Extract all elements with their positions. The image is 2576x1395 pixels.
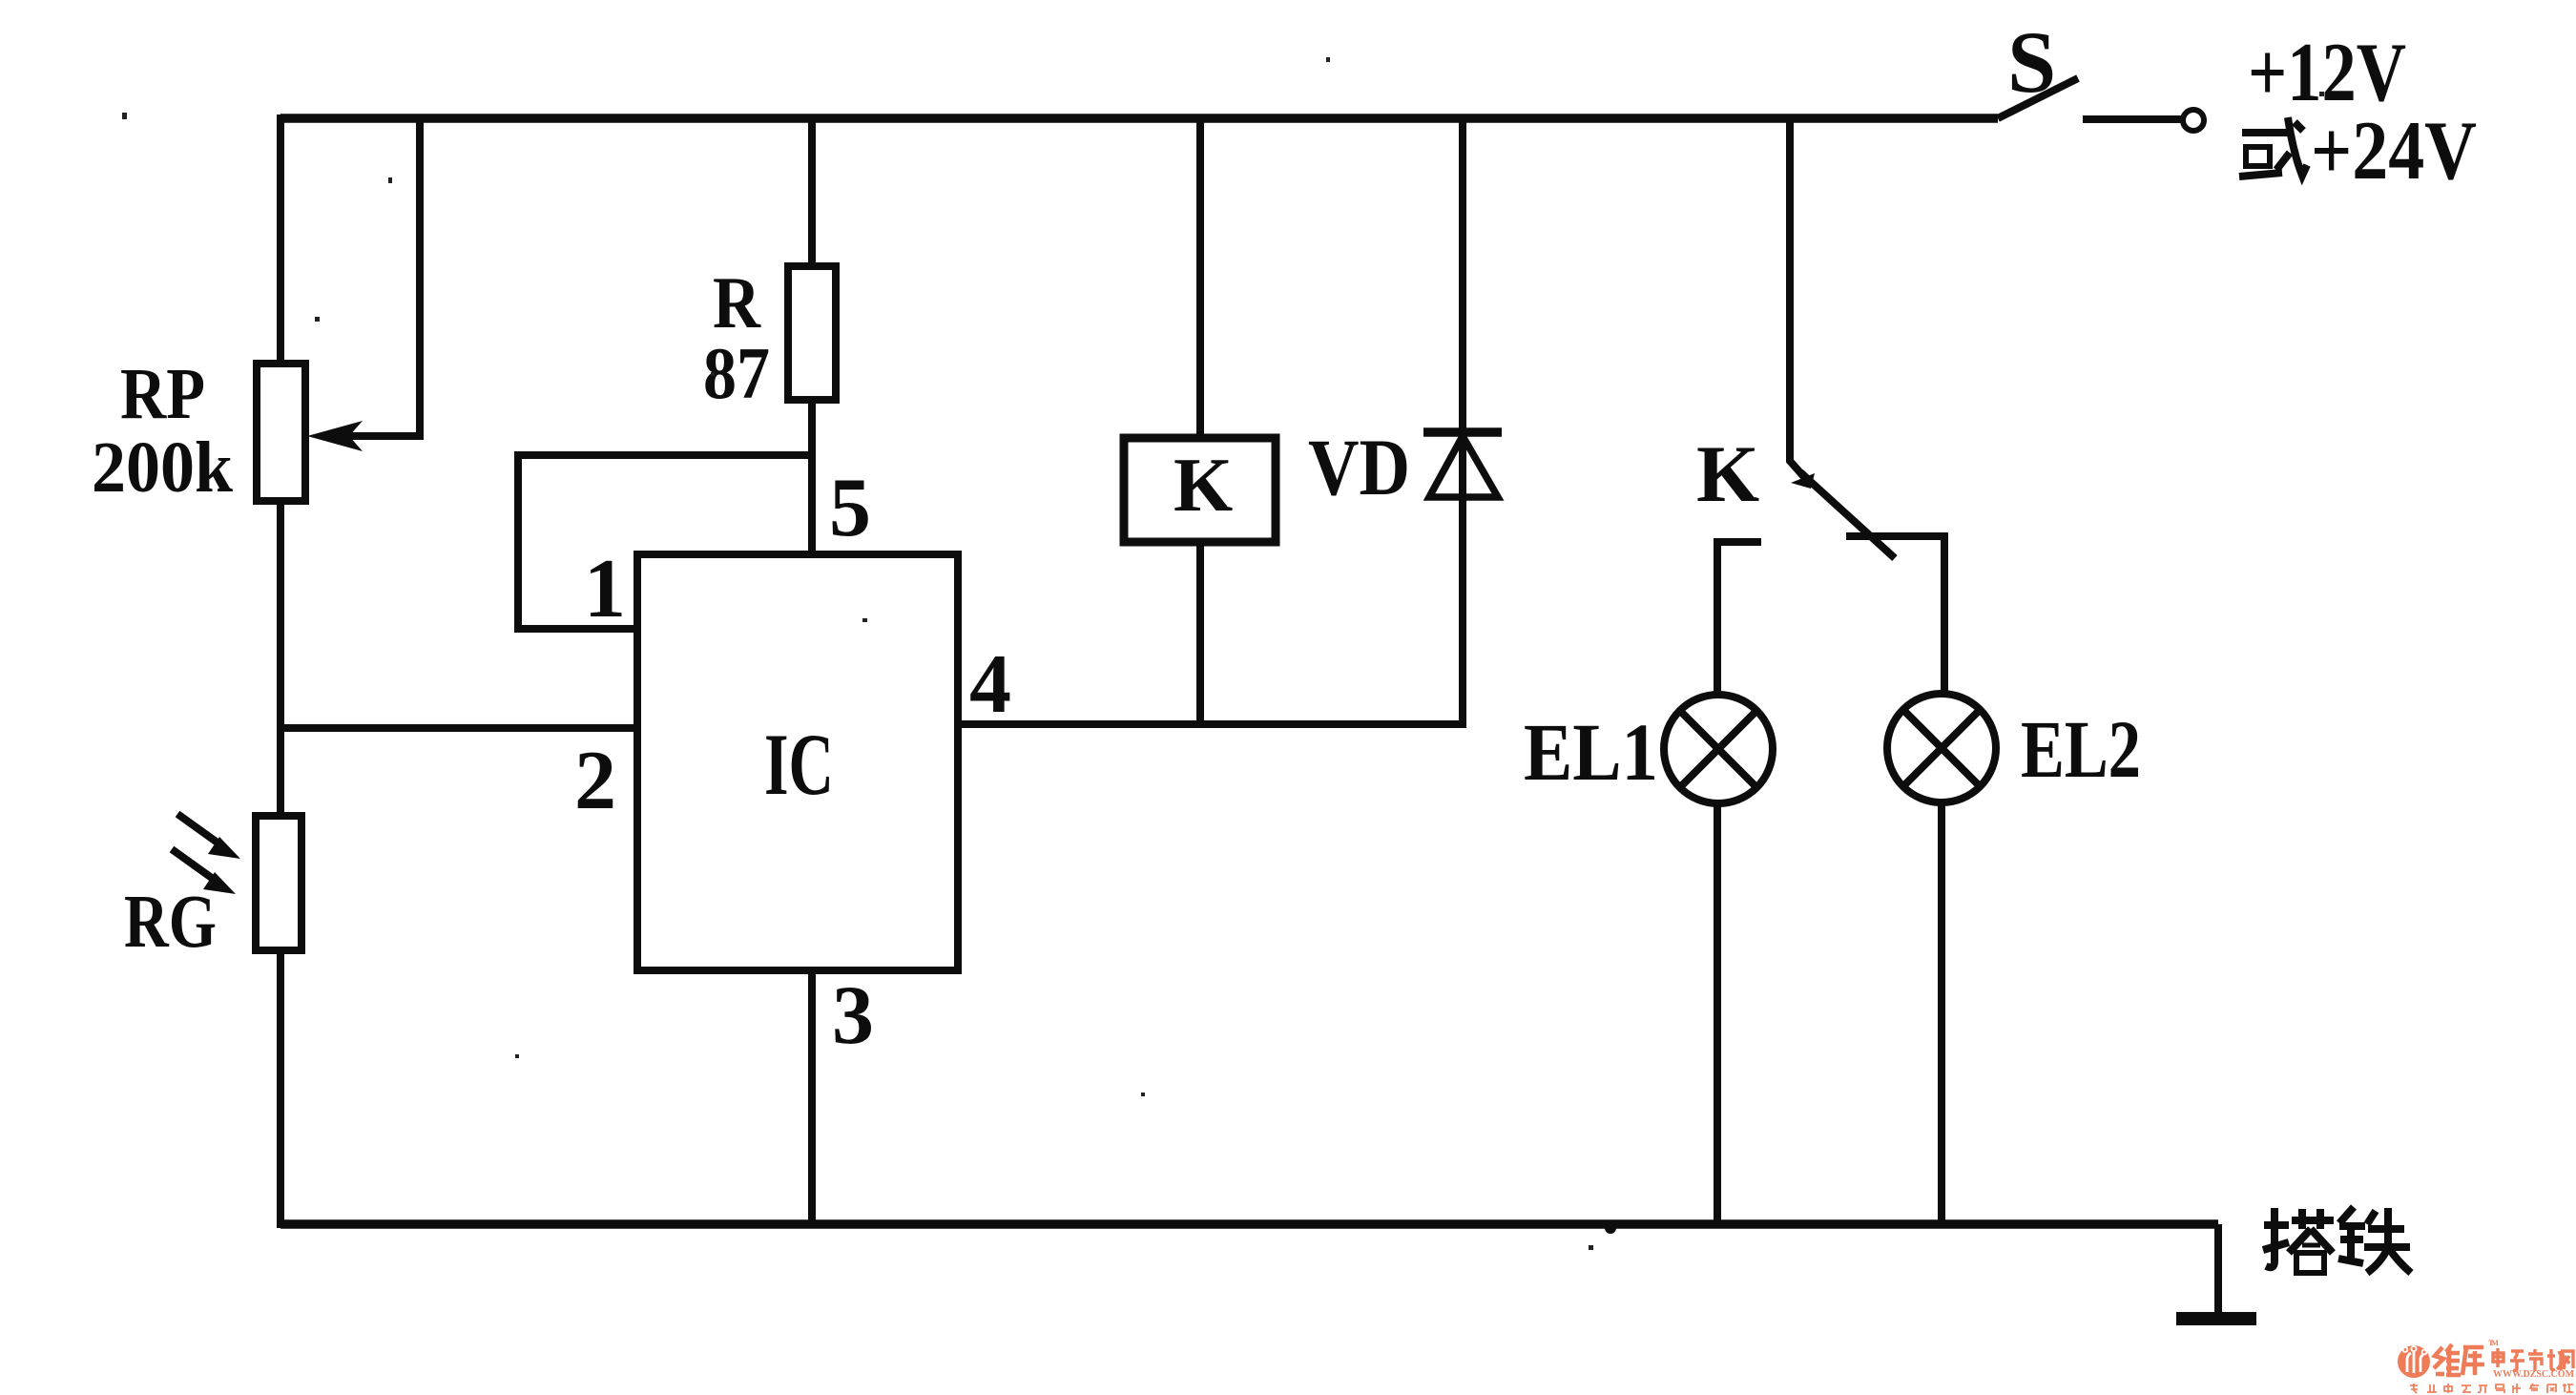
svg-text:K: K xyxy=(1696,429,1759,519)
wire left branch (top rail to RP) xyxy=(277,115,284,366)
RG light arrow 2 xyxy=(172,849,216,881)
relay coil K box xyxy=(1124,438,1276,542)
watermark 维库 (hand-drawn glyphs) xyxy=(2434,1344,2484,1375)
potentiometer RP body xyxy=(257,364,305,501)
svg-text:4: 4 xyxy=(969,638,1011,731)
svg-text:RG: RG xyxy=(124,881,217,964)
resistor R87 body xyxy=(788,266,836,400)
switch S blade xyxy=(1998,78,2078,118)
relay contact right throw (to EL2) xyxy=(1846,536,1944,696)
chassis ground bar xyxy=(2176,1312,2256,1325)
ground rail (bottom) xyxy=(280,1219,2218,1229)
wire RP bottom to RG top xyxy=(277,501,284,819)
RP wiper arrow xyxy=(307,421,363,451)
watermark slogan 专业电子元器件交易网站 (tiny glyph marks) xyxy=(2410,1384,2573,1393)
IC U1 box xyxy=(637,554,958,970)
relay contact left throw (to EL1) xyxy=(1714,538,1761,697)
diode VD cathode bar xyxy=(1423,427,1502,437)
wire IC pin3 to ground rail xyxy=(808,970,816,1228)
switch S right lead xyxy=(2083,115,2182,123)
wire R87 branch from top rail xyxy=(808,118,816,268)
wire relay K branch from top rail xyxy=(1196,118,1204,438)
svg-text:EL2: EL2 xyxy=(2021,703,2141,795)
wire ground rail to chassis symbol xyxy=(2214,1224,2222,1313)
RG light arrow 1 xyxy=(177,814,221,845)
relay contact K blade xyxy=(1800,472,1895,558)
label 或 (hand-drawn glyph) xyxy=(2239,117,2307,177)
label 铁 (hand-drawn glyph) xyxy=(2338,1207,2411,1273)
relay contact K tick xyxy=(1791,473,1815,489)
svg-text:+24V: +24V xyxy=(2311,105,2477,198)
photoresistor RG body xyxy=(256,816,301,950)
wire R87 bottom to IC pin5 xyxy=(808,400,816,554)
junction dot on ground rail xyxy=(1605,1222,1616,1234)
svg-text:TM: TM xyxy=(2488,1338,2499,1347)
wire relay K bottom to pin4 wire xyxy=(1196,542,1204,724)
diode VD wire from top rail xyxy=(1459,118,1466,724)
watermark logo circle icon xyxy=(2398,1345,2430,1378)
svg-text:K: K xyxy=(1174,444,1233,528)
wire EL1 to ground rail xyxy=(1714,803,1721,1228)
label 搭 (hand-drawn glyph) xyxy=(2263,1208,2334,1273)
switch S terminal circle xyxy=(2183,110,2204,131)
svg-text:200k: 200k xyxy=(92,427,234,508)
wire EL2 to ground rail xyxy=(1938,802,1945,1228)
svg-text:2: 2 xyxy=(574,735,616,827)
svg-text:5: 5 xyxy=(829,462,871,554)
svg-text:VD: VD xyxy=(1308,423,1410,512)
svg-text:3: 3 xyxy=(832,969,874,1062)
wire pin1 feedback loop xyxy=(518,455,812,629)
wire IC pin4 to relay/diode xyxy=(958,720,1466,728)
svg-text:IC: IC xyxy=(764,716,834,813)
node pin2 junction wire (left vertical to IC pin 2) xyxy=(277,724,637,732)
svg-text:1: 1 xyxy=(584,543,626,635)
diode VD triangle xyxy=(1429,436,1498,497)
watermark 电子市场网 (hand-drawn glyphs) xyxy=(2493,1348,2573,1371)
svg-text:EL1: EL1 xyxy=(1524,706,1658,798)
wire top supply rail xyxy=(280,114,1998,123)
svg-text:WWW.DZSC.COM: WWW.DZSC.COM xyxy=(2493,1369,2574,1380)
wire relay contact K branch from top rail xyxy=(1790,118,1804,477)
svg-text:S: S xyxy=(2007,13,2056,111)
wire RG bottom to ground rail xyxy=(277,950,284,1228)
scan noise specks xyxy=(122,57,2324,1250)
wire RP wiper feed from top rail xyxy=(343,118,420,436)
lamp EL1 xyxy=(1664,695,1773,803)
svg-text:RP: RP xyxy=(120,354,205,434)
lamp EL2 xyxy=(1887,694,1996,802)
